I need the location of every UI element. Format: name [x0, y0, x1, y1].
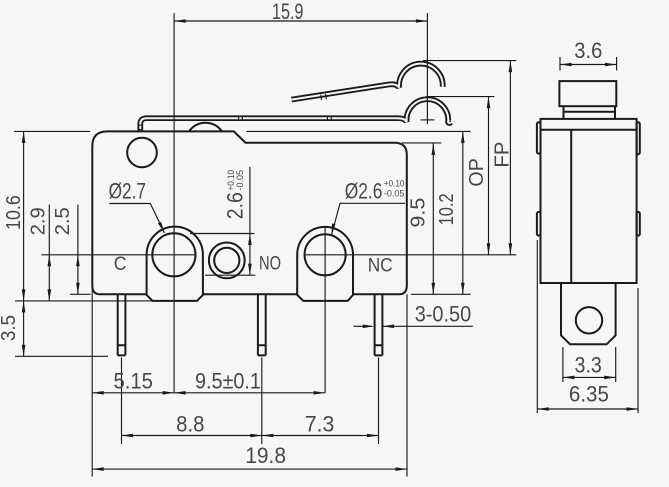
side view: cap line [541, 129, 637, 131]
svg-text:10.6: 10.6 [2, 195, 25, 230]
hole NO inner [214, 248, 239, 273]
pin NC [375, 294, 383, 355]
svg-text:2.6: 2.6 [223, 192, 248, 219]
side view: upper-right mounting tab [637, 122, 640, 154]
dimension 6.35 (side) [537, 240, 638, 413]
svg-text:FP: FP [490, 142, 513, 168]
dimension 2.6 (NO slot) [190, 167, 255, 275]
side view: plunger neck [564, 106, 616, 119]
pin NO [258, 294, 266, 355]
dimension 5.15 [92, 392, 174, 394]
white cores of lever tubes [140, 118, 398, 131]
dimension 9.5 (right) [402, 143, 441, 294]
dimension 3.3 (side) [563, 347, 616, 382]
svg-text:OP: OP [465, 158, 488, 186]
dimension 8.8 [122, 435, 262, 437]
side view: plunger button [559, 81, 616, 106]
ext line body right (19.8) [406, 294, 408, 476]
dimension 2.9 [48, 205, 50, 301]
svg-text:10.2: 10.2 [435, 193, 458, 225]
ext line body left (19.8 / 5.15) [91, 255, 93, 477]
plunger dome on body top [189, 123, 222, 132]
corner hole (top-left) [127, 138, 157, 168]
svg-text:7.3: 7.3 [305, 412, 335, 437]
centerline horizontal through NC, extended right for OP/FP [304, 254, 516, 256]
svg-text:3.5: 3.5 [0, 315, 20, 341]
dimension 3.6 (side) [560, 57, 617, 71]
hole NO outer ring [209, 243, 245, 279]
svg-text:2.9: 2.9 [27, 207, 50, 235]
side view: terminal tab [561, 283, 616, 344]
dimension FP [423, 61, 516, 255]
svg-text:2.5: 2.5 [51, 207, 74, 235]
hole NC (dia 2.6) [305, 234, 346, 275]
dimension 10.6 [14, 131, 90, 301]
side view: parting line [570, 130, 572, 283]
side view: lower-left mounting tab [537, 212, 541, 236]
centerline NC vertical [324, 227, 326, 393]
dimension 15.9 [174, 20, 427, 22]
centerline through hooks / ext 15.9-right [426, 13, 428, 124]
front view: switch body outline [92, 131, 407, 294]
svg-text:Ø2.6: Ø2.6 [345, 179, 383, 204]
svg-text:3.3: 3.3 [575, 352, 602, 377]
terminal boss C [147, 227, 203, 301]
svg-text:NC: NC [368, 256, 393, 277]
svg-text:19.8: 19.8 [245, 443, 286, 468]
dimension 7.3 [262, 435, 379, 437]
dimension 10.2 (right) [247, 131, 471, 294]
lever hook (operating position) tube [398, 99, 451, 123]
svg-text:NO: NO [259, 254, 281, 275]
centerline horizontal through C [41, 254, 196, 256]
lever strip weld ticks [239, 116, 332, 121]
side view: body [541, 119, 637, 283]
svg-text:3.6: 3.6 [574, 38, 602, 63]
hook center cross mark [421, 119, 435, 121]
dimension 19.8 [92, 468, 407, 470]
dimension 9.5+-0.1 [174, 392, 325, 394]
svg-text:3-0.50: 3-0.50 [415, 301, 472, 326]
lever arm (operating position): strip + left foot, tube body [140, 118, 398, 131]
free lever weld ticks [321, 94, 327, 100]
hole C (dia 2.7) [152, 233, 195, 276]
dimension 3.5 [15, 301, 153, 356]
svg-text:8.8: 8.8 [176, 412, 204, 437]
free position lever: diagonal strip tube [292, 64, 443, 100]
svg-text:15.9: 15.9 [272, 0, 304, 24]
dimension 3-0.50 (pin width) [354, 325, 473, 327]
pin centerline exts [122, 358, 379, 445]
svg-text:9.5: 9.5 [407, 198, 430, 228]
dimension OP [426, 97, 494, 255]
dimension 2.5 [70, 205, 91, 295]
centerline C / ext 15.9-left / ext 5.15 [173, 13, 175, 393]
svg-text:5.15: 5.15 [113, 369, 153, 394]
side view: lower-right mounting tab [637, 212, 640, 236]
svg-text:Ø2.7: Ø2.7 [109, 179, 146, 204]
svg-text:9.5±0.1: 9.5±0.1 [195, 369, 261, 394]
side view: upper-left mounting tab [537, 122, 541, 153]
terminal boss NC [297, 227, 353, 301]
pin C [118, 294, 126, 355]
svg-text:-0.05: -0.05 [384, 189, 405, 200]
svg-text:-0.05: -0.05 [235, 170, 246, 191]
svg-text:C: C [114, 254, 127, 275]
svg-text:6.35: 6.35 [569, 382, 609, 407]
lever foot bend ticks [138, 125, 143, 129]
side view: terminal tab hole [576, 307, 602, 333]
